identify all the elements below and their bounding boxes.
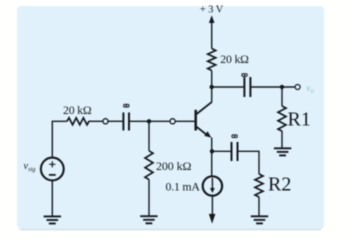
wire vsig to ground — [51, 180, 53, 216]
svg-text:20 kΩ: 20 kΩ — [63, 103, 92, 117]
emitter line — [197, 127, 207, 135]
wire input resistor to terminal — [89, 120, 103, 122]
current source arrow — [211, 178, 213, 189]
resistor Rsig 20k horizontal — [67, 118, 89, 125]
wire output node down to R1 — [281, 87, 283, 106]
wire current source to bottom arrow — [211, 196, 213, 215]
base bar — [194, 110, 197, 131]
label infinity C3 — [232, 135, 237, 138]
terminal vo open circle — [295, 85, 300, 90]
wire vsig to input resistor — [52, 121, 67, 157]
bottom supply arrow — [209, 214, 216, 224]
current source I 0.1mA — [203, 176, 222, 195]
transistor Q1 — [196, 102, 212, 138]
capacitor C3 — [232, 142, 238, 161]
source vsig — [41, 158, 64, 181]
wire base terminal to base — [175, 120, 194, 122]
node output junction — [280, 85, 284, 89]
plus sign — [49, 161, 55, 167]
resistor RB 200k — [145, 151, 153, 180]
supply wire — [211, 22, 213, 49]
node base junction — [147, 119, 151, 123]
wire terminal to cap C1 — [108, 120, 122, 122]
svg-text:+ 3 V: + 3 V — [200, 5, 224, 16]
wire R1 to ground — [281, 131, 283, 148]
wire cap C1 to base terminal — [130, 120, 170, 122]
emitter arrowhead — [204, 131, 211, 138]
resistor R1 — [278, 106, 286, 131]
ground below R2 — [251, 216, 268, 223]
ground below RB — [140, 216, 157, 223]
panel bottom shadow edge — [20, 229, 321, 231]
wire RB to ground — [148, 180, 150, 216]
svg-text:200 kΩ: 200 kΩ — [156, 159, 192, 173]
collector line — [197, 102, 212, 114]
wire R2 to ground — [258, 197, 260, 216]
label infinity C2 — [242, 74, 247, 77]
ground below R1 — [274, 148, 291, 155]
node collector junction — [210, 85, 214, 89]
supply arrow up — [209, 15, 215, 23]
svg-text:R2: R2 — [268, 174, 291, 196]
wire resistor RC to collector — [211, 71, 213, 102]
wire emitter node to cap C3 — [212, 150, 231, 152]
ground below vsig — [44, 216, 61, 223]
wire base node down to RB — [148, 121, 150, 151]
resistor RC 20k — [208, 49, 216, 71]
capacitor C1 — [123, 113, 129, 131]
svg-text:R1: R1 — [288, 109, 311, 131]
terminal open circle after Rsig — [103, 119, 108, 124]
terminal base open circle — [170, 119, 175, 124]
capacitor C2 — [244, 77, 250, 97]
svg-text:0.1 mA: 0.1 mA — [166, 180, 201, 194]
wire cap C2 to output node — [251, 86, 295, 88]
wire cap C3 to R2 corner — [238, 151, 259, 174]
wire collector node to cap C2 — [212, 86, 244, 88]
minus sign — [49, 174, 56, 176]
wire emitter down — [211, 138, 213, 177]
resistor R2 — [255, 174, 263, 197]
label infinity C1 — [124, 104, 129, 107]
svg-text:20 kΩ: 20 kΩ — [220, 52, 249, 66]
node emitter junction — [210, 149, 214, 153]
